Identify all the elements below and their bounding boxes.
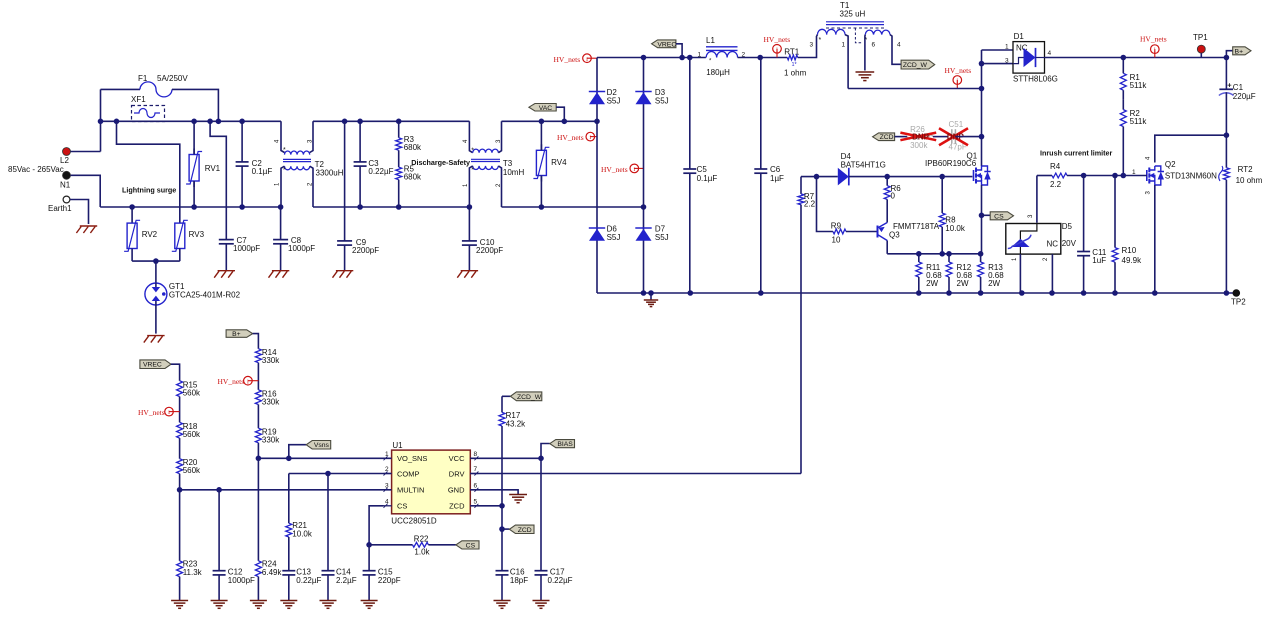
- resistor R22 1.0k: [369, 544, 412, 546]
- svg-text:B+: B+: [1235, 48, 1244, 55]
- junction: [1081, 173, 1087, 179]
- svg-text:L2: L2: [60, 156, 69, 165]
- svg-text:i: i: [586, 56, 588, 63]
- svg-text:STTH8L06G: STTH8L06G: [1013, 75, 1058, 84]
- svg-text:DNP: DNP: [912, 132, 930, 141]
- capacitor C15 220pF: [368, 545, 370, 571]
- wire ZCD tag stem: [502, 528, 509, 530]
- junction: [1121, 173, 1127, 179]
- svg-text:511k: 511k: [1130, 81, 1148, 90]
- svg-text:330k: 330k: [262, 356, 280, 365]
- fuse F1: [101, 88, 141, 90]
- wire VCC rail: [470, 457, 541, 459]
- svg-text:2.2: 2.2: [804, 200, 816, 209]
- wire VREC bus: [597, 57, 706, 59]
- svg-text:2W: 2W: [988, 279, 1000, 288]
- svg-text:i: i: [633, 166, 635, 173]
- svg-text:220µF: 220µF: [1233, 92, 1256, 101]
- junction: [594, 119, 600, 125]
- wire N rail to bridge: [502, 206, 644, 208]
- junction: [177, 487, 183, 493]
- svg-text:HV_nets: HV_nets: [138, 408, 165, 417]
- svg-text:1: 1: [385, 451, 389, 458]
- net tag BIAS: [550, 440, 575, 448]
- junction: [278, 204, 284, 210]
- svg-text:*: *: [283, 167, 286, 174]
- junction: [216, 487, 222, 493]
- svg-text:RV1: RV1: [205, 164, 221, 173]
- pin 3 MULTIN: [384, 489, 392, 491]
- resistor R6 0: [886, 177, 888, 186]
- node N1 input terminal: [63, 171, 71, 179]
- svg-text:1000pF: 1000pF: [288, 244, 315, 253]
- resistor R7 2.2: [800, 177, 802, 194]
- wire T1 secondary gnd: [864, 35, 866, 71]
- junction: [1224, 290, 1230, 296]
- capacitor C17 0.22uF: [540, 458, 542, 570]
- svg-text:C1: C1: [1233, 83, 1244, 92]
- wire Earth1 to ground: [70, 200, 89, 225]
- junction: [286, 456, 292, 462]
- inductor L1 180uH: [706, 51, 737, 57]
- wire to GT1: [155, 261, 157, 283]
- wire to R9: [817, 177, 834, 232]
- capacitor C5 0.1uF: [689, 58, 691, 170]
- junction: [499, 526, 505, 532]
- capacitor C12 1000pF: [218, 490, 220, 571]
- diode D6 S5J: [589, 227, 605, 229]
- svg-text:2.2: 2.2: [1050, 180, 1062, 189]
- svg-text:UCC28051D: UCC28051D: [391, 517, 437, 526]
- junction: [539, 119, 545, 125]
- capacitor C10 2200pF: [468, 207, 470, 241]
- node L2 input terminal: [63, 148, 71, 156]
- choke T2 3300uH: [281, 121, 285, 152]
- junction: [641, 204, 647, 210]
- junction: [1049, 290, 1055, 296]
- svg-text:1µF: 1µF: [770, 174, 784, 183]
- node Earth1 terminal: [63, 196, 70, 203]
- op-amp U1 UCC28051D controller: [392, 450, 471, 514]
- svg-text:HV_nets: HV_nets: [601, 165, 628, 174]
- wire CS pin to R22: [369, 506, 383, 545]
- svg-text:HV_nets: HV_nets: [764, 35, 791, 44]
- svg-text:1000pF: 1000pF: [233, 244, 260, 253]
- svg-text:CS: CS: [466, 542, 476, 549]
- ground C17: [533, 600, 550, 602]
- wire GND pin: [470, 490, 518, 494]
- svg-text:ZCD_W: ZCD_W: [903, 62, 928, 69]
- junction: [757, 55, 763, 61]
- svg-text:S5J: S5J: [607, 97, 621, 106]
- pin 4 CS: [384, 505, 392, 507]
- wire R4 to D5: [1036, 176, 1038, 223]
- wire RT1 to T1: [798, 36, 817, 58]
- svg-text:511k: 511k: [1130, 117, 1148, 126]
- wire T1 primary out: [845, 35, 848, 89]
- svg-text:XF1: XF1: [131, 95, 146, 104]
- svg-text:3: 3: [385, 482, 389, 489]
- wire to D1 pin1: [982, 49, 1014, 51]
- zener diode D5 symbol: [1012, 239, 1030, 247]
- svg-text:4: 4: [385, 498, 389, 505]
- wire RV4 top: [540, 121, 542, 150]
- ground bridge: [644, 299, 658, 301]
- ground R24: [250, 600, 267, 602]
- wire VAC stem: [556, 107, 564, 121]
- junction: [979, 213, 985, 219]
- junction: [916, 251, 922, 257]
- junction: [641, 290, 647, 296]
- svg-text:S5J: S5J: [655, 233, 669, 242]
- resistor R19 330k: [255, 428, 261, 443]
- wire B+ tag stem: [1226, 51, 1232, 58]
- svg-text:0.22µF: 0.22µF: [548, 576, 573, 585]
- capacitor C8 1000pF: [280, 207, 282, 240]
- ground U1 GND: [509, 494, 527, 496]
- svg-text:1*: 1*: [792, 62, 798, 68]
- svg-text:1uF: 1uF: [1092, 256, 1106, 265]
- svg-text:GND: GND: [448, 486, 465, 495]
- svg-text:0.22µF: 0.22µF: [368, 167, 393, 176]
- svg-text:85Vac - 265Vac: 85Vac - 265Vac: [8, 165, 64, 174]
- svg-text:RT2: RT2: [1238, 165, 1254, 174]
- junction: [1019, 290, 1025, 296]
- svg-text:10.0k: 10.0k: [292, 530, 313, 539]
- wire RV1 top: [193, 121, 195, 154]
- ground C12: [211, 600, 228, 602]
- svg-text:HV_nets: HV_nets: [218, 377, 245, 386]
- svg-text:Earth1: Earth1: [48, 204, 72, 213]
- svg-text:300k: 300k: [910, 141, 928, 150]
- wire R17 to ZCD pin: [501, 426, 503, 506]
- varistor RV4: [540, 144, 542, 150]
- svg-text:20V: 20V: [1062, 239, 1077, 248]
- resistor R11 0.68 2W: [918, 254, 920, 262]
- svg-text:560k: 560k: [183, 466, 201, 475]
- svg-text:COMP: COMP: [397, 469, 420, 478]
- junction: [239, 119, 245, 125]
- wire ground bus: [597, 292, 1236, 294]
- diode D1 STTH8L06G: [1013, 42, 1045, 74]
- capacitor C7 1000pF: [219, 239, 234, 241]
- resistor R1 511k: [1122, 58, 1124, 74]
- wire R15 R18: [179, 397, 181, 423]
- capacitor C9 2200pF: [344, 121, 346, 241]
- junction: [1112, 290, 1118, 296]
- resistor R14 330k: [255, 349, 261, 363]
- ground R23: [171, 600, 188, 602]
- varistor RV1: [193, 149, 195, 155]
- wire N rail mid: [313, 206, 469, 208]
- svg-text:1.0k: 1.0k: [414, 548, 430, 557]
- capacitor C6 1uF: [760, 58, 762, 170]
- resistor R3 680k: [398, 121, 400, 137]
- wire DRV rail: [470, 473, 801, 475]
- svg-text:680k: 680k: [404, 173, 422, 182]
- junction: [688, 290, 694, 296]
- svg-text:BIAS: BIAS: [557, 441, 573, 448]
- wire R20 to MULTIN rail: [179, 474, 181, 490]
- wire Q1 drain vertical: [981, 50, 983, 166]
- test point TP2: [1233, 289, 1241, 297]
- svg-text:0.22µF: 0.22µF: [296, 576, 321, 585]
- transistor Q3 FMMT718TA PNP: [877, 226, 879, 238]
- svg-text:2200pF: 2200pF: [352, 246, 379, 255]
- svg-text:MULTIN: MULTIN: [397, 486, 424, 495]
- transistor Q2 STD13NM60N: [1146, 170, 1148, 181]
- wire R19 to Vsns rail: [257, 443, 259, 459]
- svg-text:VREC: VREC: [657, 41, 676, 48]
- wire L rail to RV3: [117, 121, 180, 223]
- wire ground stem: [650, 293, 652, 300]
- junction: [396, 119, 402, 125]
- svg-text:STD13NM60N: STD13NM60N: [1165, 172, 1217, 181]
- wire C51 to drain: [955, 136, 981, 138]
- junction: [884, 174, 890, 180]
- wire R9 to Q3 base: [846, 231, 877, 233]
- resistor R24 6.49k: [257, 458, 259, 561]
- wire VREC stem: [676, 44, 682, 58]
- net tag VREC: [652, 40, 676, 48]
- wire BIAS stem: [541, 444, 550, 459]
- wire T1 shield dashed: [855, 28, 862, 43]
- svg-text:N1: N1: [60, 181, 71, 190]
- wire bottom N rail left: [100, 206, 281, 208]
- svg-text:R4: R4: [1050, 162, 1061, 171]
- svg-text:5: 5: [474, 498, 478, 505]
- junction: [325, 471, 331, 477]
- junction: [539, 204, 545, 210]
- svg-text:10: 10: [832, 236, 841, 245]
- wire Q2 drain: [1155, 135, 1227, 162]
- ground C14: [320, 600, 337, 602]
- svg-text:10.0k: 10.0k: [945, 224, 966, 233]
- svg-text:R10: R10: [1122, 246, 1137, 255]
- svg-text:1 ohm: 1 ohm: [784, 69, 807, 78]
- svg-text:3300uH: 3300uH: [316, 169, 344, 178]
- wire ZCD pin to tag: [501, 506, 503, 529]
- svg-text:Lightning surge: Lightning surge: [122, 186, 176, 195]
- svg-text:Inrush current limiter: Inrush current limiter: [1040, 149, 1112, 158]
- junction: [538, 456, 544, 462]
- svg-text:680k: 680k: [404, 143, 422, 152]
- junction: [939, 251, 945, 257]
- net tag B+ bottom: [226, 330, 253, 338]
- svg-text:CS: CS: [397, 502, 407, 511]
- svg-text:HV_nets: HV_nets: [557, 133, 584, 142]
- svg-text:4: 4: [1048, 50, 1052, 57]
- junction: [342, 119, 348, 125]
- wire RV1 bottom: [193, 181, 195, 207]
- wire ZCD to R26: [895, 136, 907, 138]
- pin 8 VCC: [470, 457, 478, 459]
- svg-text:IPB60R190C6: IPB60R190C6: [925, 159, 977, 168]
- wire N1 to bottom rail: [71, 175, 101, 207]
- svg-text:2W: 2W: [957, 279, 969, 288]
- svg-text:0.1µF: 0.1µF: [252, 167, 273, 176]
- wire main L rail: [101, 120, 282, 122]
- svg-text:D1: D1: [1014, 32, 1025, 41]
- svg-text:220pF: 220pF: [378, 576, 401, 585]
- junction: [1112, 173, 1118, 179]
- wire CS stem: [982, 214, 991, 216]
- junction: [1152, 290, 1158, 296]
- svg-text:8: 8: [474, 451, 478, 458]
- svg-text:0: 0: [891, 192, 896, 201]
- junction: [1224, 132, 1230, 138]
- net tag ZCD top: [873, 133, 895, 141]
- ground earth C9: [336, 270, 353, 272]
- junction: [978, 290, 984, 296]
- junction: [979, 86, 985, 92]
- ground earth C7: [218, 270, 235, 272]
- svg-text:560k: 560k: [183, 430, 201, 439]
- junction: [758, 290, 764, 296]
- net tag Vsns: [306, 441, 331, 450]
- svg-text:5A/250V: 5A/250V: [157, 74, 188, 83]
- svg-text:6: 6: [872, 42, 876, 49]
- wire R16 R19: [257, 405, 259, 429]
- junction: [256, 456, 262, 462]
- resistor R16 330k: [255, 390, 261, 405]
- svg-text:3: 3: [810, 42, 814, 49]
- svg-text:C5: C5: [697, 165, 708, 174]
- wire fuse left vertical: [100, 89, 102, 151]
- svg-text:RV3: RV3: [189, 230, 205, 239]
- svg-text:TP2: TP2: [1231, 298, 1246, 307]
- svg-text:7: 7: [474, 466, 478, 473]
- svg-text:NC: NC: [1047, 239, 1059, 248]
- svg-text:43.2k: 43.2k: [506, 420, 527, 429]
- svg-text:11.3k: 11.3k: [183, 568, 203, 577]
- diode D1 body: [1024, 48, 1036, 67]
- svg-text:2W: 2W: [926, 279, 938, 288]
- junction: [979, 61, 985, 67]
- wire bridge right leg: [643, 58, 645, 294]
- junction: [814, 174, 820, 180]
- svg-text:TP1: TP1: [1193, 33, 1208, 42]
- junction: [153, 258, 159, 264]
- svg-text:HV_nets: HV_nets: [945, 66, 972, 75]
- capacitor C11 1uF: [1083, 176, 1085, 252]
- svg-text:RV2: RV2: [142, 230, 158, 239]
- net tag VREC bottom: [140, 360, 171, 369]
- wire MULTIN rail: [180, 489, 392, 491]
- svg-text:VO_SNS: VO_SNS: [397, 454, 427, 463]
- test point TP1: [1197, 45, 1205, 53]
- svg-text:180µH: 180µH: [706, 68, 730, 77]
- wire Vsns stem: [289, 445, 306, 459]
- svg-text:6.49k: 6.49k: [262, 568, 283, 577]
- net tag ZCD_W: [901, 60, 935, 69]
- net tag VAC: [529, 104, 556, 112]
- wire D5 pin2 to bus: [1051, 254, 1053, 293]
- svg-text:4: 4: [897, 42, 901, 49]
- junction: [357, 119, 363, 125]
- junction: [239, 204, 245, 210]
- ground C16: [494, 600, 511, 602]
- junction: [978, 251, 984, 257]
- wire L1 to RT1: [738, 57, 788, 59]
- resistor R18 560k: [177, 422, 183, 438]
- wire L2 to fuse column: [71, 151, 101, 153]
- resistor R2 511k: [1122, 100, 1124, 110]
- wire B+ bus: [1045, 57, 1227, 59]
- capacitor C13 0.22uF: [288, 537, 290, 571]
- svg-text:18pF: 18pF: [510, 576, 528, 585]
- wire gate rail Q1: [849, 176, 973, 178]
- junction: [216, 119, 222, 125]
- wire RV2 RV3 join: [132, 260, 180, 262]
- pin 7 DRV: [470, 473, 478, 475]
- svg-text:49.9k: 49.9k: [1122, 256, 1143, 265]
- svg-text:Q2: Q2: [1165, 160, 1176, 169]
- wire VREC stem: [171, 364, 180, 381]
- wire R14 R16: [257, 363, 259, 390]
- svg-text:ZCD_W: ZCD_W: [517, 394, 542, 401]
- svg-text:2.2µF: 2.2µF: [336, 576, 357, 585]
- svg-text:ZCD: ZCD: [518, 527, 532, 534]
- wire T1 to Q1 drain: [848, 88, 981, 90]
- wire T1 secondary out: [890, 35, 901, 65]
- wire jog to C7: [210, 121, 226, 239]
- svg-text:RV4: RV4: [551, 158, 567, 167]
- junction: [191, 204, 197, 210]
- net tag ZCD bottom: [509, 525, 534, 533]
- svg-text:*: *: [283, 147, 286, 154]
- transistor Q1 IPB60R190C6: [973, 170, 975, 181]
- svg-text:F1: F1: [138, 74, 148, 83]
- ground earth C8: [272, 270, 289, 272]
- junction: [979, 134, 985, 140]
- svg-text:VREC: VREC: [143, 362, 162, 369]
- wire ZCD pin rail: [470, 505, 502, 507]
- resistor R23 11.3k: [179, 490, 181, 561]
- junction: [939, 174, 945, 180]
- resistor R5 680k: [398, 150, 400, 167]
- ground earth GT1: [147, 335, 164, 337]
- junction: [1121, 55, 1127, 61]
- wire B+ stem: [253, 334, 259, 349]
- wire R18 R20: [179, 438, 181, 459]
- diode D4 symbol: [838, 168, 849, 186]
- svg-text:S5J: S5J: [607, 233, 621, 242]
- svg-text:*: *: [471, 147, 474, 154]
- wire gate rail Q2: [1067, 175, 1147, 177]
- resistor R8 10.0k: [941, 177, 943, 214]
- svg-text:HV_nets: HV_nets: [1140, 35, 1167, 44]
- svg-text:560k: 560k: [183, 389, 201, 398]
- wire Vsns rail: [258, 457, 391, 459]
- pin 6 GND: [470, 489, 478, 491]
- svg-text:*: *: [819, 37, 822, 44]
- net tag ZCD_W bottom: [510, 392, 541, 401]
- svg-text:10mH: 10mH: [503, 168, 525, 177]
- junction: [687, 55, 693, 61]
- wire L rail to bridge: [502, 120, 598, 122]
- gas discharge tube GT1 GTCA25-401M-R02: [145, 283, 167, 305]
- svg-text:1: 1: [698, 52, 702, 59]
- wire driver rail: [887, 253, 980, 255]
- svg-text:BAT54HT1G: BAT54HT1G: [841, 161, 886, 170]
- resistor R12 0.68 2W: [948, 254, 950, 262]
- resistor R13 0.68 2W: [980, 254, 982, 262]
- junction: [499, 503, 505, 509]
- wire Q2 source: [1154, 185, 1156, 293]
- pin 2 COMP: [384, 473, 392, 475]
- junction: [946, 290, 952, 296]
